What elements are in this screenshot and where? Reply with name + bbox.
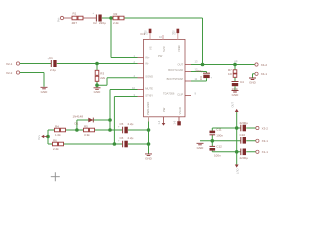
ground power rail	[145, 154, 153, 161]
svg-text:C12: C12	[216, 144, 222, 148]
resistor R4	[55, 124, 66, 137]
svg-text:X3-1: X3-1	[262, 139, 269, 143]
resistor R3 input bias	[95, 70, 105, 81]
svg-text:R5: R5	[84, 124, 88, 128]
svg-text:R1: R1	[73, 12, 77, 16]
svg-text:VP: VP	[234, 59, 238, 63]
node junction top	[109, 16, 113, 20]
node junction input bias	[95, 62, 99, 66]
capacitor C13	[240, 121, 249, 132]
svg-text:C9: C9	[199, 76, 203, 80]
svg-text:PW: PW	[158, 54, 163, 58]
pad X2-2	[6, 71, 20, 75]
capacitor C14	[210, 127, 224, 137]
wire speaker row 3	[212, 151, 255, 153]
pin numbers	[132, 30, 198, 124]
pad X1-1	[256, 150, 268, 154]
svg-text:VS: VS	[171, 30, 175, 34]
svg-text:220µ: 220µ	[196, 69, 203, 73]
svg-text:C11: C11	[216, 127, 222, 131]
svg-text:OUT: OUT	[231, 102, 235, 108]
wire X2-2 to ground	[20, 73, 44, 87]
wire left rail between rows	[47, 130, 49, 144]
wire input bias resistor branch	[96, 64, 98, 88]
pad X2-1	[6, 62, 20, 66]
svg-text:1.0k: 1.0k	[55, 133, 61, 137]
resistor R5	[84, 124, 95, 137]
wire mute RC row 2	[48, 129, 110, 131]
svg-text:R4: R4	[55, 124, 59, 128]
diode D1 1N4148	[73, 115, 94, 126]
wire input row X2-1 to IN- pin	[20, 63, 138, 65]
svg-text:2.2µ: 2.2µ	[128, 136, 134, 140]
wire SGND pin route	[97, 78, 138, 85]
svg-text:2.2k: 2.2k	[53, 147, 59, 151]
node junction zobel	[233, 63, 237, 67]
wire MUTE pin route	[110, 90, 138, 131]
svg-text:MUTE: MUTE	[145, 86, 153, 90]
svg-text:D1: D1	[75, 122, 79, 126]
wire bootstrap lower	[191, 78, 207, 81]
IC1 pin stubs top	[150, 33, 178, 39]
capacitor C13b	[240, 149, 249, 160]
svg-text:VS: VS	[144, 30, 148, 34]
svg-text:GND: GND	[249, 81, 257, 85]
ground under R3	[94, 88, 102, 94]
wire diode branch	[77, 120, 110, 130]
svg-text:2200µ: 2200µ	[240, 121, 249, 125]
resistor R7 zobel	[228, 68, 237, 77]
wire speaker row 1	[212, 127, 255, 129]
svg-text:C2: C2	[93, 21, 97, 25]
svg-text:R3: R3	[100, 71, 104, 75]
capacitor C5 mute	[118, 122, 134, 133]
capacitor C12	[210, 144, 223, 150]
svg-text:SGND: SGND	[145, 75, 153, 79]
node junction supply rail	[46, 135, 50, 139]
svg-text:3.3k: 3.3k	[84, 133, 90, 137]
wire right vertical down to OUT node	[202, 18, 204, 65]
svg-text:220µ: 220µ	[99, 21, 106, 25]
op-amp IC1 TDA7056 body	[141, 32, 186, 117]
resistor R2	[113, 12, 124, 25]
wire top feedback run	[102, 17, 203, 19]
wire zobel branch	[234, 65, 236, 91]
svg-text:X2-1: X2-1	[6, 62, 13, 66]
svg-text:R2: R2	[114, 12, 118, 16]
node junction out rail row1	[235, 126, 239, 130]
node junction out rail row3	[235, 150, 239, 154]
IC1 supply box bottom right	[177, 121, 181, 125]
test point pad top left	[57, 16, 64, 22]
svg-text:BOOTSTRAP: BOOTSTRAP	[167, 77, 184, 81]
wire X4-1 ground stub	[253, 74, 255, 78]
wire bootstrap upper	[191, 72, 207, 74]
svg-text:1-6: 1-6	[173, 120, 177, 124]
ground under X2-2	[41, 87, 49, 94]
svg-text:C6: C6	[120, 136, 124, 140]
svg-text:TDA7056: TDA7056	[163, 91, 175, 95]
svg-text:9V+: 9V+	[37, 135, 41, 140]
resistor R6	[53, 138, 64, 151]
svg-text:CLIP: CLIP	[177, 92, 183, 96]
svg-text:VSAR: VSAR	[178, 107, 182, 114]
svg-text:C5: C5	[120, 122, 124, 126]
wire mute cap row	[110, 129, 149, 131]
wire OUT node to X4-2 pad	[191, 64, 255, 66]
svg-text:GND: GND	[41, 90, 49, 94]
capacitor C4 zobel	[232, 80, 245, 91]
svg-text:GND: GND	[145, 156, 153, 160]
svg-text:2.2µ: 2.2µ	[128, 122, 134, 126]
origin cross	[51, 172, 60, 181]
capacitor C9 bootstrap	[196, 69, 213, 80]
pad X3-2	[256, 126, 268, 130]
IC1 pin stubs bottom	[148, 117, 150, 122]
wire stby RC row 3	[48, 143, 149, 145]
svg-text:X4-2: X4-2	[261, 63, 268, 67]
capacitor C1 input polarized	[48, 56, 57, 72]
node junction diode bottom	[75, 128, 79, 132]
svg-text:1-4: 1-4	[157, 120, 161, 124]
node junction sgnd	[95, 83, 99, 87]
IC1 pin stubs right	[185, 65, 191, 96]
wire STBY pin route	[114, 97, 137, 145]
svg-text:VS: VS	[148, 46, 152, 50]
svg-text:2.2µ: 2.2µ	[50, 68, 56, 72]
svg-text:22k: 22k	[100, 76, 105, 80]
wire speaker row 2	[200, 140, 256, 142]
svg-text:C1: C1	[49, 56, 53, 60]
pad X4-2	[255, 63, 267, 67]
svg-text:C4: C4	[240, 80, 244, 84]
svg-text:2200µ: 2200µ	[240, 156, 249, 160]
svg-text:1N4148: 1N4148	[73, 115, 84, 119]
node junction diode top	[108, 118, 112, 122]
svg-text:X3-2: X3-2	[262, 126, 269, 130]
resistor R1	[64, 12, 96, 25]
svg-text:OUT: OUT	[178, 63, 184, 67]
svg-text:GND: GND	[94, 90, 102, 94]
pad X3-1	[256, 139, 268, 143]
svg-text:R6: R6	[53, 138, 57, 142]
svg-text:IN+: IN+	[145, 55, 150, 59]
svg-text:C10: C10	[240, 133, 246, 137]
svg-text:OUT: OUT	[235, 169, 239, 175]
wire output rail bottom right	[236, 112, 238, 165]
svg-text:2.2k: 2.2k	[113, 21, 119, 25]
svg-text:PWR-GND: PWR-GND	[146, 102, 150, 115]
node junction pwr rail c6	[147, 142, 151, 146]
IC1 supply box pin VS	[149, 29, 152, 33]
IC1 supply box pin VREF	[177, 29, 180, 33]
svg-text:SVR: SVR	[162, 46, 166, 52]
supply arrow mute rail	[37, 135, 48, 140]
ground X4-1	[249, 78, 257, 85]
svg-text:X4-1: X4-1	[261, 72, 268, 76]
svg-text:VREF: VREF	[177, 44, 181, 52]
supply arrow out rail bottom	[235, 165, 240, 175]
svg-text:BOOTLOAD: BOOTLOAD	[168, 68, 183, 72]
IC1 pin stubs left	[138, 58, 144, 97]
supply arrow out rail top	[231, 102, 239, 112]
pad X4-1	[255, 72, 267, 76]
svg-text:GND: GND	[232, 93, 240, 97]
svg-text:PW: PW	[162, 107, 166, 112]
node junction pwr rail c5	[147, 128, 151, 132]
svg-text:GND: GND	[197, 146, 205, 150]
capacitor C2 polarized	[93, 12, 107, 25]
svg-text:IN-: IN-	[145, 61, 149, 65]
node junction stby row	[113, 142, 117, 146]
svg-text:100n: 100n	[214, 153, 221, 157]
svg-text:ST-BY: ST-BY	[145, 93, 153, 97]
svg-text:9V+: 9V+	[57, 17, 61, 22]
node junction left cap rail row2	[211, 139, 215, 143]
svg-text:X2-2: X2-2	[6, 71, 13, 75]
ground zobel	[232, 91, 240, 98]
wire top junction to IN+ pin	[111, 18, 138, 58]
node junction mute row	[108, 128, 112, 132]
wire left cap rail	[211, 128, 213, 152]
wire power ground rail	[148, 118, 150, 154]
IC1 supply arrow bottom mid	[162, 123, 166, 126]
node junction out	[201, 63, 205, 67]
svg-text:X1-1: X1-1	[262, 150, 269, 154]
ground speaker mid	[197, 143, 205, 150]
svg-text:100n: 100n	[216, 134, 223, 138]
capacitor C6 stby	[118, 136, 134, 147]
svg-text:4R7: 4R7	[72, 21, 78, 25]
capacitor C10	[240, 133, 247, 144]
capacitor C11	[214, 153, 221, 157]
